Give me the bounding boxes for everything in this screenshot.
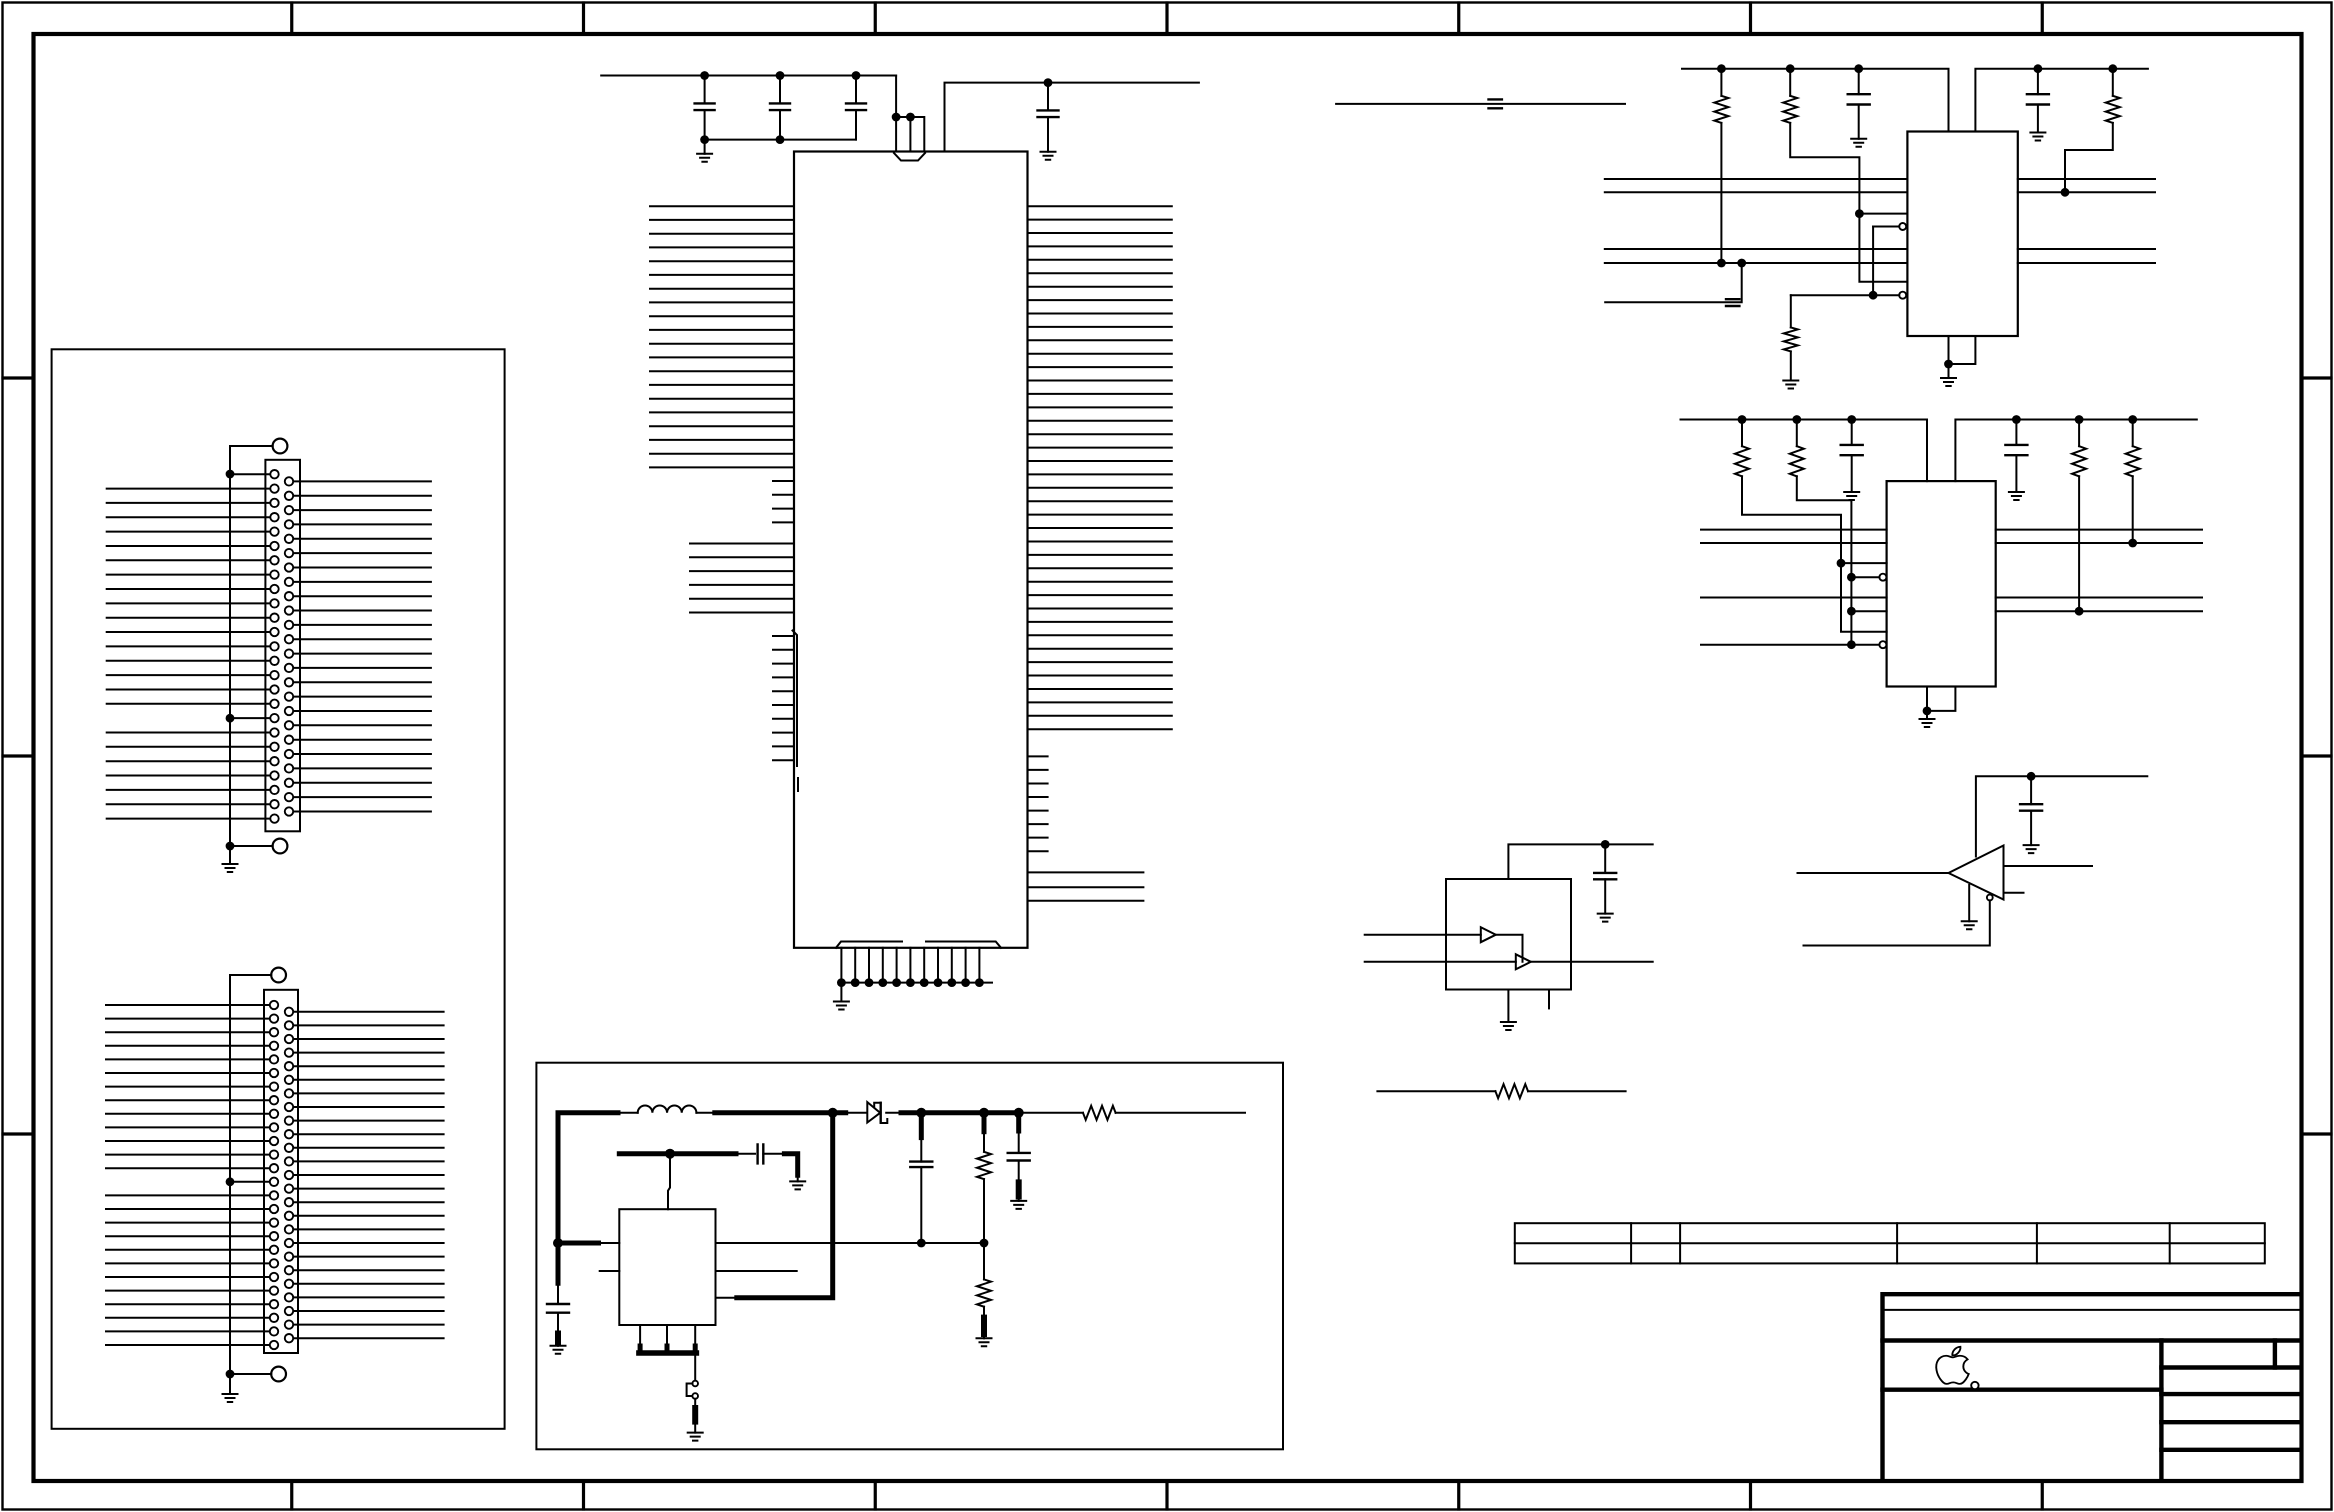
junction fb / divider: [980, 1239, 989, 1248]
junction lower bus 1: [700, 135, 709, 144]
ground C6: [2030, 133, 2045, 141]
wire to bubble3: [1851, 576, 1879, 578]
wire to jumper: [694, 1353, 696, 1381]
ground U4: [1501, 1022, 1516, 1030]
resistor R11: [1083, 1106, 1116, 1120]
U6 left nc stub: [600, 1270, 620, 1272]
wire to inductor: [618, 1112, 638, 1114]
capacitor C10: [2030, 776, 2032, 804]
wire R2 to U2 pins: [1790, 123, 1907, 282]
wire diode to output: [886, 1112, 901, 1114]
sense wire to right: [1116, 1112, 1245, 1114]
wire to bubble1: [1873, 226, 1899, 228]
connector sub-sheet box: [52, 349, 505, 1429]
U1 left pin group D: [773, 636, 794, 760]
capacitor C8: [2015, 420, 2017, 445]
title block line 2: [1883, 1338, 2302, 1342]
series resistor R9 wire right: [1528, 1090, 1626, 1092]
resistor R9: [1495, 1084, 1528, 1098]
resistor R1: [1720, 69, 1722, 96]
U1 left pin group A: [650, 206, 794, 467]
title block line 1: [1883, 1309, 2302, 1311]
wire stub to U6: [599, 1242, 620, 1244]
capacitor C12 polarised: [1018, 1131, 1020, 1153]
wire rail to crystal: [895, 76, 897, 152]
U4 nc pin stub: [1548, 990, 1550, 1009]
U5 right pin 1 wire: [2004, 865, 2093, 867]
junction bus d / R1: [1717, 259, 1726, 268]
jumper strap: [687, 1384, 693, 1397]
wire to bubble2: [1873, 294, 1899, 296]
diode D1 (schottky): [867, 1102, 880, 1122]
capacitor C9: [1604, 844, 1606, 873]
ground C13: [557, 1342, 559, 1346]
net stub U3 d left: [1851, 610, 1886, 612]
ground R4: [1783, 381, 1798, 389]
junction R2 route: [1855, 209, 1864, 218]
wire to bypass cap C14: [736, 1153, 755, 1155]
ground U1: [840, 983, 842, 1002]
wire R6 to bubble net: [1797, 476, 1852, 644]
junction rail R2: [1786, 64, 1795, 73]
top zone tick marks: [292, 3, 2043, 34]
junction rail C4: [1044, 78, 1053, 87]
buffer2 output wire: [1531, 961, 1653, 963]
junction output C12: [1014, 1108, 1024, 1118]
junction bubble4 net: [1847, 640, 1856, 649]
wire R5 to U3 pins: [1742, 476, 1887, 632]
wire bubble net vertical: [1872, 227, 1874, 296]
registered trademark circle: [1971, 1382, 1978, 1389]
junction U3 ground: [1923, 707, 1932, 716]
junction rail R1: [1717, 64, 1726, 73]
junction fb / C11: [917, 1239, 926, 1248]
junction output R10: [979, 1108, 989, 1118]
ground C8: [2009, 492, 2024, 500]
net bus U2 b left: [1605, 191, 1908, 193]
junction U6 vcc: [665, 1149, 675, 1159]
junction output C11: [916, 1108, 926, 1118]
VCC rail U2 left segment: [1682, 69, 1949, 132]
junction rail C1: [700, 71, 709, 80]
inverter U5 triangle: [1949, 846, 2004, 900]
thick VCC rail U6: [619, 1151, 736, 1156]
VCC rail above U1: [601, 75, 896, 77]
ground U2: [1948, 364, 1950, 378]
cap bank lower bus: [705, 139, 856, 141]
buffer1 output route: [1496, 935, 1523, 962]
right zone tick marks: [2302, 378, 2331, 1134]
ground C12: [1018, 1197, 1020, 1201]
J1 right pin circles: [285, 477, 293, 816]
resistor R12 (fb bottom): [983, 1243, 985, 1279]
ground for J1 bus: [229, 846, 231, 864]
junction rail C7: [1847, 415, 1856, 424]
net bus U2 d left: [1605, 262, 1908, 264]
junction rail C6: [2034, 64, 2043, 73]
U4 VCC pin wire: [1508, 844, 1652, 879]
ground bus wire for J1: [229, 446, 231, 861]
resistor R4: [1790, 295, 1792, 327]
wire to bubble4: [1851, 644, 1879, 646]
connector J1 shield pin top circle: [273, 439, 288, 454]
wire to diode D1: [846, 1112, 867, 1114]
terminator double bar upper: [1489, 99, 1502, 108]
thick input rail: [558, 1113, 618, 1284]
title block outline: [1883, 1294, 2302, 1479]
U6 right pin stub: [716, 1270, 797, 1272]
U3 inverted input pin2 bubble: [1879, 641, 1886, 648]
U5 output wire left: [1798, 872, 1949, 874]
junction crystal X1 pin2: [906, 113, 915, 122]
junction rail R7: [2075, 415, 2084, 424]
U3 inverted input pin1 bubble: [1879, 574, 1886, 581]
connector J1 shield pin bottom circle: [273, 839, 288, 854]
net bus U2 a right: [2018, 178, 2155, 180]
net bus U3 c right: [1996, 597, 2202, 599]
ground C5: [1851, 139, 1866, 147]
buffer gate 2: [1516, 954, 1531, 969]
U1 left pin group C: [690, 544, 794, 613]
wire jumper to ground: [694, 1399, 696, 1408]
connector J2 shield pin top circle: [271, 968, 286, 983]
series resistor R9 wire left: [1377, 1090, 1495, 1092]
ground R12: [983, 1334, 985, 1338]
junction bus d / R7: [2075, 607, 2084, 616]
VCC rail right of crystal: [945, 83, 1199, 152]
ground C9: [1598, 914, 1613, 922]
U2 ground pins: [1949, 336, 1976, 364]
resistor R6: [1796, 420, 1798, 447]
junction crystal X1 pin1: [892, 113, 901, 122]
wire pulldown R4 top: [1791, 294, 1873, 296]
capacitor C4: [1047, 83, 1049, 111]
ground C10: [2024, 845, 2039, 853]
capacitor C7: [1851, 420, 1853, 445]
VCC rail U3 left segment: [1681, 420, 1928, 482]
U6 top pin: [668, 1154, 670, 1210]
revision table: [1515, 1223, 2265, 1263]
thick drop C14 gnd: [784, 1154, 797, 1176]
capacitor C5: [1858, 69, 1860, 95]
U1 bottom pin junctions: [837, 978, 984, 987]
inductor L1: [638, 1105, 697, 1112]
junction on J1 bus mid: [226, 714, 235, 723]
IC U6 body: [619, 1209, 715, 1325]
J1 right pin wires: [293, 481, 431, 811]
junction rail R3: [2108, 64, 2117, 73]
ground for J2 bus: [229, 1390, 231, 1394]
ground C4: [1041, 152, 1056, 160]
ground C7: [1844, 492, 1859, 500]
connector J1 shell: [265, 460, 300, 832]
terminator double bar: [1726, 299, 1739, 306]
thick output rail: [901, 1110, 1020, 1115]
resistor R2: [1789, 69, 1791, 96]
U1 bottom bracket right: [926, 942, 1001, 948]
U5 right pin 2 stub: [2004, 892, 2024, 894]
junction on J2 bus bottom: [226, 1370, 235, 1379]
connector J2 shell: [264, 990, 298, 1353]
power supply sub-sheet box: [536, 1063, 1283, 1450]
IC U2 body: [1907, 132, 2017, 337]
net bus U2 b right: [2018, 191, 2155, 193]
capacitor C14: [758, 1144, 764, 1163]
resistor R10 (fb top): [983, 1132, 985, 1152]
net bus U2 c left: [1605, 248, 1908, 250]
wire from inductor: [696, 1112, 714, 1114]
junction rail R6: [1792, 415, 1801, 424]
resistor R3: [2112, 69, 2114, 96]
net bus U2 d right: [2018, 262, 2155, 264]
junction rail C2: [776, 71, 785, 80]
bottom zone tick marks: [292, 1481, 2043, 1509]
title block line 3: [1883, 1387, 2162, 1391]
junction on J1 bus pin1: [226, 470, 235, 479]
junction stub net: [1847, 607, 1856, 616]
net bus U3 a right: [1996, 529, 2202, 531]
left zone tick marks: [3, 378, 33, 1134]
thick stub C12: [1016, 1113, 1021, 1131]
net bus U3 d right: [1996, 610, 2202, 612]
wire J2 bottom shield: [230, 1373, 271, 1375]
junction on J2 bus mid: [226, 1177, 235, 1186]
junction U4 vcc cap: [1601, 840, 1610, 849]
U1 right pin group A: [1028, 206, 1172, 729]
connector J2 shield pin bottom circle: [271, 1367, 286, 1382]
net bus U3 a left: [1701, 529, 1887, 531]
junction rail C3: [852, 71, 861, 80]
junction rail R5: [1738, 415, 1747, 424]
wire J1 bottom shield: [230, 845, 273, 847]
junction U5 vcc cap: [2027, 772, 2036, 781]
net bus U2 c right: [2018, 248, 2155, 250]
junction on J1 bus bottom: [226, 842, 235, 851]
Apple logo: [1936, 1347, 1968, 1384]
wire R3 to bus: [2065, 123, 2113, 192]
net bus U2 a left: [1605, 178, 1908, 180]
resistor R8: [2132, 420, 2134, 447]
U5 VCC wire: [1976, 776, 2147, 856]
feedback node wire: [716, 1242, 985, 1244]
ground U3: [1926, 711, 1928, 719]
J1 left pin wires: [107, 474, 270, 818]
junction lower bus 2: [776, 135, 785, 144]
U1 right pin group C: [1028, 872, 1144, 900]
U6 bottom pins: [640, 1325, 695, 1353]
U5 enable bubble: [1987, 895, 1993, 901]
J2 left pin wires: [106, 1005, 270, 1345]
junction rail C5: [1854, 64, 1863, 73]
thick switch node vertical: [737, 1113, 833, 1298]
junction switch node: [828, 1108, 838, 1118]
junction rail R8: [2128, 415, 2137, 424]
thick stub R10: [982, 1113, 987, 1132]
revision table midline: [1515, 1242, 2265, 1244]
U4 ground pin: [1507, 990, 1509, 1023]
net bus U3 c left: [1701, 597, 1887, 599]
U1 right pin group B: [1028, 756, 1048, 851]
ground C14: [790, 1181, 805, 1189]
U1 bottom ground bus: [841, 982, 992, 984]
U3 ground pins: [1927, 687, 1955, 711]
wire J2 top shield to ground bus: [230, 974, 271, 976]
IC U3 body: [1887, 481, 1996, 686]
crystal X1 strap: [896, 117, 924, 152]
terminated net wire upper: [1336, 103, 1625, 105]
wire J1 top shield to ground bus: [230, 445, 273, 447]
junction R5 route: [1837, 559, 1846, 568]
junction bus b / R3: [2061, 188, 2070, 197]
ground U5: [1968, 885, 1970, 921]
wire C14 to ground: [763, 1153, 784, 1155]
thick stub C11: [919, 1113, 924, 1138]
terminated net wire: [1605, 263, 1742, 302]
input cap C13: [557, 1283, 559, 1304]
junction input rail / vcc pin: [553, 1238, 563, 1248]
U2 inverted input pin 2 bubble: [1899, 292, 1906, 299]
junction bus d / terminator: [1737, 259, 1746, 268]
ground cap bank: [704, 140, 706, 154]
ground jumper: [688, 1433, 703, 1441]
junction rail C8: [2012, 415, 2021, 424]
U4 input wire 1: [1365, 934, 1481, 936]
thick stub U6 vcc: [558, 1241, 599, 1246]
buffer gate 1: [1481, 927, 1496, 942]
capacitor C3: [855, 76, 857, 104]
capacitor C1: [704, 76, 706, 104]
J1 left pin circles: [270, 470, 278, 823]
junction bubble net: [1869, 291, 1878, 300]
junction bubble3 net: [1847, 573, 1856, 582]
ground bus wire for J2: [229, 975, 231, 1390]
U6 ground bus nubs: [640, 1346, 695, 1353]
thick switch node wire: [715, 1110, 846, 1115]
VCC rail U2 right segment: [1975, 69, 2147, 132]
resistor R7: [2078, 420, 2080, 447]
U1 bottom ground pins: [841, 948, 979, 983]
title block cell divider small: [2273, 1341, 2277, 1368]
revision table columns: [1631, 1223, 2170, 1263]
thick U6 ground bus: [639, 1350, 697, 1356]
wire switch to U6: [716, 1297, 737, 1299]
U1 bottom bracket left: [836, 942, 902, 948]
capacitor C2: [779, 76, 781, 104]
J2 right pin wires: [293, 1012, 443, 1338]
U1 top notch: [894, 153, 925, 161]
net wire U3 e: [1701, 644, 1851, 646]
output sense wire: [1020, 1112, 1083, 1114]
jumper pin 2: [692, 1393, 698, 1399]
net bus U3 b left: [1701, 542, 1887, 544]
U1 left pin group B: [773, 481, 794, 522]
U4 input wire 2: [1365, 961, 1516, 963]
junction U2 ground: [1944, 360, 1953, 369]
U5 enable wire: [1804, 900, 1990, 945]
junction bus b / R8: [2128, 539, 2137, 548]
VCC rail U3 right segment: [1955, 420, 2196, 482]
IC U4 body: [1446, 879, 1571, 990]
title block right column divider: [2159, 1341, 2163, 1480]
title block right rows: [2161, 1368, 2301, 1450]
capacitor C6: [2037, 69, 2039, 95]
resistor R5: [1741, 420, 1743, 447]
net bus U3 b right: [1996, 542, 2202, 544]
J2 left pin circles: [270, 1001, 278, 1349]
capacitor C11: [920, 1138, 922, 1162]
J2 right pin circles: [285, 1008, 293, 1343]
U2 inverted input pin 1 bubble: [1899, 223, 1906, 230]
U1 inner port bracket: [793, 631, 799, 792]
jumper pin 1: [692, 1381, 698, 1387]
IC U1 body: [794, 152, 1028, 948]
